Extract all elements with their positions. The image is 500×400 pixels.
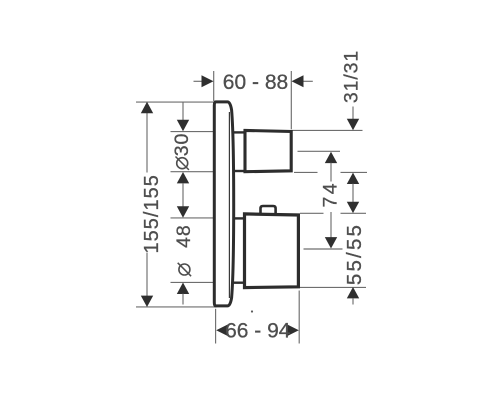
upper handle bottom extension line seg2 <box>341 171 368 173</box>
dim 155/155 arrow up <box>141 102 153 113</box>
plate dome base edge <box>228 112 230 298</box>
dim 31/31 arrow down <box>347 119 359 130</box>
upper handle <box>245 130 291 171</box>
dim 66-94 left extension line <box>215 309 217 344</box>
dim d30 bottom extension line <box>171 171 214 173</box>
dim 155/155 arrow down <box>141 296 153 307</box>
diameter chain line top segment <box>182 102 184 120</box>
svg-text:66 - 94: 66 - 94 <box>225 320 291 343</box>
dim d48 label <box>173 224 195 276</box>
dim 60-88 right extension line <box>290 71 292 129</box>
dim 155/155 bottom extension line <box>136 306 217 308</box>
upper handle bottom extension line seg1 <box>294 171 318 173</box>
dim d30 arrow up <box>177 172 189 183</box>
upper handle axis extension line <box>298 150 341 152</box>
lower handle <box>245 214 299 288</box>
svg-text:48: 48 <box>173 224 195 248</box>
dim 66-94 arrow right <box>287 324 299 336</box>
dim 31/31 arrow up <box>347 173 359 184</box>
svg-text:31/31: 31/31 <box>340 50 362 103</box>
dim 31/31 leader line <box>352 107 354 120</box>
dim 66-94 arrow left <box>216 324 228 336</box>
safety stop tab on lower handle <box>261 206 276 215</box>
dim 55/55 arrow down <box>347 202 359 213</box>
dim d30 arrow down <box>177 120 189 131</box>
svg-text:30: 30 <box>171 133 193 157</box>
dim 66-94 right extension line <box>298 291 300 344</box>
dim 155/155 top extension line <box>136 101 214 103</box>
chain line below 55/55 <box>352 298 354 305</box>
diameter chain line bottom segment <box>182 294 184 305</box>
dim d48 bottom extension line <box>171 281 214 283</box>
dim d48 arrow up <box>177 283 189 295</box>
upper valve neck <box>233 132 246 171</box>
lower handle top extension line seg1 <box>300 212 324 214</box>
dim 60-88 left tail <box>194 80 203 82</box>
dim 60-88 arrow right <box>202 75 214 87</box>
lower handle bottom extension line <box>299 286 366 288</box>
dim d30 label <box>171 133 193 170</box>
diameter chain line middle segment <box>182 183 184 207</box>
lower handle axis extension line <box>304 248 343 250</box>
svg-text:55/55: 55/55 <box>343 223 366 285</box>
dim 74 arrow down <box>325 237 337 248</box>
dim 55/55 arrow up <box>347 287 359 298</box>
dim d48 arrow down <box>177 206 189 217</box>
dim 60-88 right tail <box>303 80 313 82</box>
dim 74 line lower segment <box>330 212 332 238</box>
dim 155/155 line lower segment <box>146 253 148 297</box>
stray dot <box>251 310 253 312</box>
dim d48 top extension line <box>171 217 214 219</box>
lower valve neck <box>233 218 246 282</box>
dim 60-88 left extension line <box>213 71 215 101</box>
svg-text:155/155: 155/155 <box>141 174 163 253</box>
chain line 31/31 to 55/55 <box>352 184 354 203</box>
dim 60-88 arrow left <box>292 75 304 87</box>
upper handle top extension line right <box>292 129 363 131</box>
svg-text:74: 74 <box>320 181 342 208</box>
dim d30 top extension line <box>171 131 214 133</box>
dim 74 arrow up <box>325 152 337 163</box>
lower handle top extension line seg2 <box>341 212 367 214</box>
dim 155/155 line upper segment <box>146 113 148 173</box>
escutcheon plate (side view) <box>214 102 233 306</box>
dim 74 line upper segment <box>330 163 332 182</box>
svg-text:60 - 88: 60 - 88 <box>223 71 288 94</box>
